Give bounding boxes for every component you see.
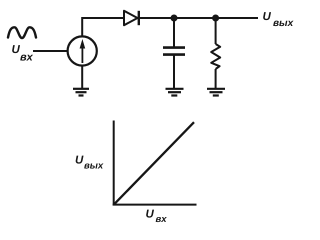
node junction dot B	[212, 15, 219, 22]
current source I1 circle	[68, 36, 97, 65]
current source arrow	[80, 39, 86, 63]
svg-text:U: U	[75, 155, 84, 167]
svg-text:U: U	[263, 11, 272, 23]
node junction dot A	[171, 15, 178, 22]
svg-text:вых: вых	[84, 160, 104, 171]
wire resistor to ground	[215, 69, 217, 88]
wire capacitor to ground	[173, 56, 175, 89]
graph transfer characteristic line	[114, 122, 194, 204]
ground below resistor	[207, 89, 225, 96]
svg-text:вых: вых	[273, 18, 294, 29]
wire node B to resistor	[215, 18, 217, 44]
ground below current source	[73, 89, 89, 96]
label U_vx on graph	[146, 208, 168, 225]
diode VD1	[124, 11, 139, 25]
AC sine symbol	[8, 27, 36, 38]
label U_vx input	[12, 44, 34, 63]
wire current source top to rail	[82, 18, 125, 37]
graph vertical axis U_vyx	[113, 121, 115, 206]
wire node A to capacitor	[173, 18, 175, 47]
svg-text:U: U	[146, 208, 155, 220]
graph horizontal axis U_vx	[113, 204, 197, 206]
label U_vyx on graph	[75, 155, 104, 172]
svg-text:вх: вх	[156, 214, 168, 225]
resistor R1 zigzag	[211, 44, 220, 69]
label U_vyx output	[263, 11, 294, 29]
wire diode to output	[139, 17, 258, 19]
svg-text:вх: вх	[20, 51, 34, 63]
wire current source bottom to ground	[81, 66, 83, 89]
capacitor C1	[163, 48, 185, 55]
wire input to current source	[33, 50, 68, 52]
ground below capacitor	[166, 89, 184, 96]
